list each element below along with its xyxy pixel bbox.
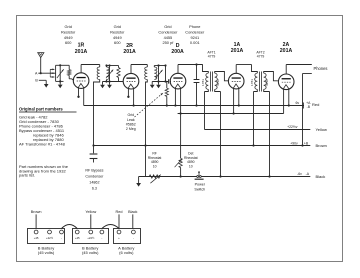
svg-text:Phone: Phone xyxy=(189,24,200,29)
svg-text:10: 10 xyxy=(153,165,157,169)
svg-text:6.3: 6.3 xyxy=(92,186,97,190)
svg-text:+22½: +22½ xyxy=(46,236,54,240)
svg-text:201A: 201A xyxy=(123,49,136,55)
svg-text:201A: 201A xyxy=(231,48,244,54)
svg-text:201A: 201A xyxy=(280,48,293,54)
svg-text:+22½v: +22½v xyxy=(287,125,298,129)
svg-text:Red: Red xyxy=(312,102,319,107)
svg-text:(45 volts): (45 volts) xyxy=(38,250,55,255)
svg-text:-: - xyxy=(101,236,102,240)
svg-text:Leak: Leak xyxy=(127,118,135,122)
svg-text:14862: 14862 xyxy=(89,180,99,184)
svg-text:10: 10 xyxy=(189,165,193,169)
svg-text:Yellow: Yellow xyxy=(316,127,328,132)
svg-text:Condenser: Condenser xyxy=(185,30,205,35)
svg-text:+45: +45 xyxy=(75,236,80,240)
svg-text:Original part numbers: Original part numbers xyxy=(19,107,63,112)
svg-text:Resistor: Resistor xyxy=(61,30,76,35)
svg-text:1R: 1R xyxy=(78,43,85,49)
svg-text:AF Transformer #1 - 4748: AF Transformer #1 - 4748 xyxy=(19,141,66,146)
svg-text:200A: 200A xyxy=(171,49,184,55)
svg-text:250 pf: 250 pf xyxy=(162,40,174,45)
svg-text:4455: 4455 xyxy=(164,35,173,40)
svg-text:4779: 4779 xyxy=(257,55,265,59)
svg-text:#5862: #5862 xyxy=(126,122,136,126)
svg-text:Condenser: Condenser xyxy=(158,30,178,35)
svg-text:2R: 2R xyxy=(126,43,133,49)
svg-text:-6v: -6v xyxy=(297,172,302,176)
svg-text:RF Bypass: RF Bypass xyxy=(85,168,103,172)
svg-text:Resistor: Resistor xyxy=(110,30,125,35)
svg-text:(45 volts): (45 volts) xyxy=(82,250,99,255)
svg-text:Black: Black xyxy=(316,174,326,179)
svg-text:Det: Det xyxy=(188,151,193,155)
svg-text:Grid: Grid xyxy=(164,24,171,29)
svg-text:+B: +B xyxy=(304,141,309,145)
svg-text:4949: 4949 xyxy=(113,35,122,40)
svg-text:600: 600 xyxy=(65,40,72,45)
svg-text:3250: 3250 xyxy=(265,79,269,86)
svg-text:+90v: +90v xyxy=(290,141,298,145)
svg-text:Grid: Grid xyxy=(114,24,121,29)
svg-text:D: D xyxy=(176,43,180,49)
svg-text:parts list.: parts list. xyxy=(19,173,35,178)
svg-text:+45: +45 xyxy=(34,236,39,240)
svg-text:Grid: Grid xyxy=(127,113,134,117)
svg-text:Rheostat: Rheostat xyxy=(148,156,162,160)
svg-text:3250: 3250 xyxy=(216,79,220,86)
svg-text:Grid: Grid xyxy=(65,24,72,29)
svg-text:Phones: Phones xyxy=(314,66,328,71)
svg-text:600: 600 xyxy=(114,40,121,45)
svg-text:-: - xyxy=(133,236,134,240)
svg-text:4890: 4890 xyxy=(151,160,159,164)
svg-text:Black: Black xyxy=(128,210,137,214)
svg-text:1A: 1A xyxy=(234,42,241,48)
svg-text:0.001: 0.001 xyxy=(190,40,200,45)
svg-text:1781: 1781 xyxy=(201,79,205,86)
svg-text:4779: 4779 xyxy=(208,55,216,59)
svg-text:9241: 9241 xyxy=(190,35,199,40)
svg-text:Red: Red xyxy=(116,210,123,214)
svg-text:1781: 1781 xyxy=(250,79,254,86)
svg-text:4890: 4890 xyxy=(187,160,195,164)
svg-text:Rheostat: Rheostat xyxy=(184,156,198,160)
svg-text:2A: 2A xyxy=(283,42,290,48)
svg-text:Power: Power xyxy=(195,183,206,187)
svg-text:(6 volts): (6 volts) xyxy=(119,250,134,255)
svg-text:201A: 201A xyxy=(75,49,88,55)
svg-text:-: - xyxy=(61,236,62,240)
svg-text:Yellow: Yellow xyxy=(85,210,96,214)
svg-text:Condenser: Condenser xyxy=(85,174,104,178)
svg-text:6v: 6v xyxy=(295,101,299,105)
svg-text:4949: 4949 xyxy=(64,35,73,40)
svg-text:2 Meg: 2 Meg xyxy=(126,127,136,131)
svg-text:Switch: Switch xyxy=(194,187,205,191)
svg-text:+22½: +22½ xyxy=(87,236,95,240)
svg-text:RF: RF xyxy=(152,151,157,155)
svg-text:Brown: Brown xyxy=(316,143,327,148)
svg-text:Brown: Brown xyxy=(31,210,42,214)
